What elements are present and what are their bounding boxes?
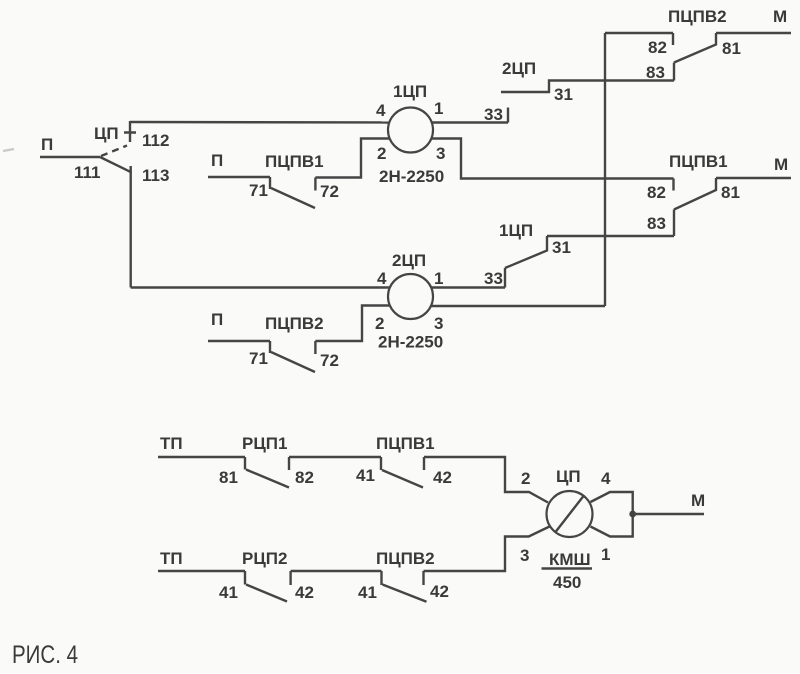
contact 1ЦП 33 tick (lower) [504, 268, 506, 288]
contact ПЦПВ2 41 tick [380, 571, 382, 585]
contact РЦП2 41-42 open arm [246, 585, 287, 602]
svg-text:112: 112 [142, 131, 169, 150]
contact ПЦПВ1 41 tick [380, 457, 382, 470]
relay coil 1ЦП (2Н-2250) [388, 108, 433, 153]
contact ПЦПВ2 72 tick [314, 341, 316, 354]
relay coil 2ЦП (2Н-2250) [388, 274, 433, 319]
contact 1ЦП 33 tick [507, 108, 509, 123]
contact РЦП1 82 tick [288, 457, 290, 470]
contact ПЦПВ1 42 tick [423, 457, 425, 470]
coil ЦП diagonal slash [556, 496, 584, 532]
wire П feed [40, 156, 100, 158]
wire 2ЦП pin 2 to ПЦПВ2-72 [315, 306, 389, 342]
svg-text:42: 42 [433, 468, 452, 487]
wire П middle [208, 176, 270, 178]
svg-text:П: П [41, 135, 53, 154]
svg-text:2ЦП: 2ЦП [392, 251, 426, 270]
svg-text:КМШ: КМШ [549, 550, 591, 569]
contact ЦП dashed arm to 112 [101, 146, 127, 157]
svg-text:2Н-2250: 2Н-2250 [378, 333, 443, 352]
svg-text:2ЦП: 2ЦП [502, 59, 536, 78]
contact РЦП1 81 tick [244, 457, 246, 470]
svg-text:М: М [773, 7, 787, 26]
svg-text:М: М [691, 491, 705, 510]
svg-text:82: 82 [648, 38, 667, 57]
contact РЦП1 81-82 open arm [246, 470, 289, 488]
wire 82 to 41 [289, 456, 381, 458]
contact ПЦПВ1 41-42 open arm [382, 470, 423, 488]
contact ПЦПВ2 armature 83-81 [674, 33, 716, 63]
svg-text:РИС. 4: РИС. 4 [12, 641, 78, 669]
svg-text:81: 81 [721, 183, 740, 202]
svg-text:ПЦПВ1: ПЦПВ1 [376, 434, 435, 453]
svg-text:450: 450 [553, 573, 581, 592]
contact ЦП back tip 113 tick [129, 166, 131, 173]
svg-text:82: 82 [295, 468, 314, 487]
contact 1ЦП 31 closed arm [505, 236, 547, 268]
svg-text:ТП: ТП [160, 434, 183, 453]
svg-text:83: 83 [647, 214, 666, 233]
svg-text:ТП: ТП [160, 549, 183, 568]
svg-text:81: 81 [722, 39, 741, 58]
svg-text:33: 33 [484, 269, 503, 288]
wire bus 2ЦП pin3 up to ПЦПВ2-82 [604, 33, 606, 306]
svg-text:31: 31 [554, 85, 573, 104]
contact ПЦПВ2 83 jog [673, 63, 675, 81]
junction М node dot [629, 511, 636, 518]
contact ПЦПВ1 71 tick [269, 177, 271, 189]
svg-text:ЦП: ЦП [556, 467, 581, 486]
wire ЦП pin 1 to М node [591, 514, 633, 537]
svg-text:П: П [211, 151, 223, 170]
svg-text:41: 41 [219, 583, 238, 602]
svg-text:РЦП2: РЦП2 [242, 549, 287, 568]
contact ЦП armature 111 (common, solid arm) [100, 157, 131, 172]
svg-text:2: 2 [377, 144, 386, 163]
svg-text:31: 31 [552, 238, 571, 257]
wire ТП row1 [158, 456, 245, 458]
svg-text:42: 42 [430, 582, 449, 601]
svg-text:М: М [774, 155, 788, 174]
svg-text:71: 71 [249, 349, 268, 368]
wire 1ЦП pin 1 to contact 33 [432, 121, 508, 123]
contact ПЦПВ2 71 tick [269, 341, 271, 353]
contact ПЦПВ1 82 tick [672, 179, 674, 191]
svg-text:1: 1 [601, 545, 610, 564]
svg-text:111: 111 [74, 163, 101, 182]
svg-text:3: 3 [520, 546, 529, 565]
wire 81 to М (middle) [716, 177, 791, 179]
svg-text:4: 4 [377, 269, 387, 288]
contact ПЦПВ2 82 tick [672, 33, 674, 45]
svg-text:72: 72 [320, 182, 339, 201]
svg-text:72: 72 [320, 351, 339, 370]
relay coil ЦП (КМШ-450) [547, 491, 593, 537]
contact ПЦПВ2 42 tick [422, 571, 424, 585]
scan smudge left edge [3, 149, 14, 151]
svg-text:1ЦП: 1ЦП [393, 82, 427, 101]
wire 2ЦП pin 3 to bus [432, 305, 606, 307]
svg-text:41: 41 [356, 466, 375, 485]
wire 2ЦП pin 4 [131, 286, 389, 288]
svg-text:33: 33 [484, 105, 503, 124]
contact ПЦПВ1 armature 83-81 [674, 178, 716, 210]
wire 42 to 41 [291, 570, 382, 572]
svg-text:ЦП: ЦП [94, 124, 119, 143]
svg-text:3: 3 [434, 314, 443, 333]
contact ПЦПВ2 71 open arm [271, 352, 315, 372]
wire П lower [208, 340, 270, 342]
svg-text:4: 4 [601, 469, 611, 488]
svg-text:ПЦПВ1: ПЦПВ1 [669, 152, 728, 171]
svg-text:42: 42 [295, 583, 314, 602]
contact ПЦПВ1 83 jog [673, 210, 675, 237]
contact ЦП front tip 112 (tick and crossbar) [124, 121, 136, 142]
contact ПЦПВ1 72 tick [314, 178, 316, 191]
svg-text:ПЦПВ2: ПЦПВ2 [668, 7, 727, 26]
svg-text:П: П [211, 310, 223, 329]
wire 113 down to 2ЦП pin 4 [129, 172, 131, 288]
wire 1ЦП pin 3 to ПЦПВ1-82 [431, 139, 673, 179]
svg-text:83: 83 [646, 63, 665, 82]
svg-text:1: 1 [434, 269, 443, 288]
wire 2ЦП pin 1 to contact 33 [432, 286, 506, 288]
contact 2ЦП 31 (step) [501, 81, 674, 93]
svg-text:113: 113 [142, 166, 169, 185]
wire bus to 82 [605, 32, 673, 34]
svg-text:4: 4 [376, 101, 386, 120]
wire 42 to ЦП pin 2 [424, 457, 548, 503]
wire 31 to ПЦПВ1-83 [547, 235, 674, 237]
wire 112 to 1ЦП pin 4 [130, 121, 389, 124]
contact ПЦПВ2 41-42 open arm [383, 585, 427, 602]
svg-text:2: 2 [521, 469, 530, 488]
wire М (bottom) [633, 513, 704, 515]
svg-text:ПЦПВ2: ПЦПВ2 [376, 549, 435, 568]
svg-text:ПЦПВ2: ПЦПВ2 [265, 314, 324, 333]
wire ЦП pin 4 to М node [591, 492, 633, 514]
contact РЦП2 41 tick [244, 571, 246, 585]
wire 42 to ЦП pin 3 [424, 527, 550, 572]
svg-text:2: 2 [375, 314, 384, 333]
svg-text:81: 81 [219, 468, 238, 487]
svg-text:ПЦПВ1: ПЦПВ1 [265, 152, 324, 171]
svg-text:1ЦП: 1ЦП [499, 221, 533, 240]
svg-text:РЦП1: РЦП1 [242, 434, 287, 453]
wire 81 to М (top) [716, 32, 791, 34]
svg-text:3: 3 [436, 144, 445, 163]
wire ТП row2 [158, 570, 245, 572]
contact ПЦПВ1 71 open arm [271, 188, 315, 208]
value fraction bar [542, 567, 593, 569]
svg-text:71: 71 [249, 181, 268, 200]
wire 72 to 1ЦП pin 2 [315, 139, 389, 178]
contact РЦП2 42 tick [289, 571, 291, 585]
svg-text:1: 1 [434, 99, 443, 118]
svg-text:41: 41 [358, 583, 377, 602]
svg-text:82: 82 [647, 183, 666, 202]
svg-text:2Н-2250: 2Н-2250 [379, 167, 444, 186]
